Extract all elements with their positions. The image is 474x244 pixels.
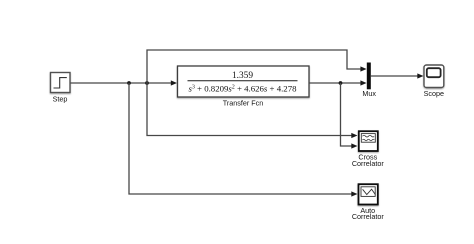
block Cross Correlator [359, 131, 378, 151]
svg-text:Correlator: Correlator [352, 212, 385, 221]
wire J1 down and across to Auto Correlator input [129, 83, 358, 197]
wire J2 down and across to Cross Correlator input 1 [147, 83, 358, 138]
node junction J2 on step line [145, 81, 149, 85]
block Scope [424, 65, 444, 88]
svg-text:Correlator: Correlator [352, 159, 385, 168]
value numerator 1.359 [232, 71, 253, 81]
block Mux [367, 63, 371, 90]
svg-text:Transfer Fcn: Transfer Fcn [223, 99, 263, 108]
block Transfer Fcn [178, 66, 310, 97]
label Scope [424, 89, 444, 98]
label Step [53, 94, 68, 103]
svg-text:Step: Step [53, 94, 68, 103]
svg-text:Scope: Scope [424, 89, 444, 98]
node junction J3 on transfer output [339, 81, 343, 85]
svg-text:1.359: 1.359 [232, 71, 253, 81]
svg-text:s3 + 0.8209s2 + 4.626s + 4.278: s3 + 0.8209s2 + 4.626s + 4.278 [189, 84, 298, 94]
label Mux [362, 89, 376, 98]
label Cross Correlator [352, 153, 385, 168]
svg-text:Mux: Mux [362, 89, 376, 98]
node junction J1 on step line [127, 81, 131, 85]
label Auto Correlator [352, 206, 385, 221]
wire J3 down to Cross Correlator input 2 [341, 83, 358, 149]
value denominator s^3+0.8209s^2+4.626s+4.278 [189, 84, 298, 94]
block Auto Correlator [359, 184, 378, 204]
label Transfer Fcn [223, 99, 263, 108]
block Step (source) [51, 73, 71, 93]
fraction bar [188, 80, 298, 82]
wire J2 up and across to Mux input 1 [147, 50, 367, 83]
wire Transfer Fcn output to Mux input 2 [309, 80, 367, 85]
wire Mux output to Scope [371, 73, 424, 78]
wire Step output to Transfer Fcn input [71, 80, 178, 85]
